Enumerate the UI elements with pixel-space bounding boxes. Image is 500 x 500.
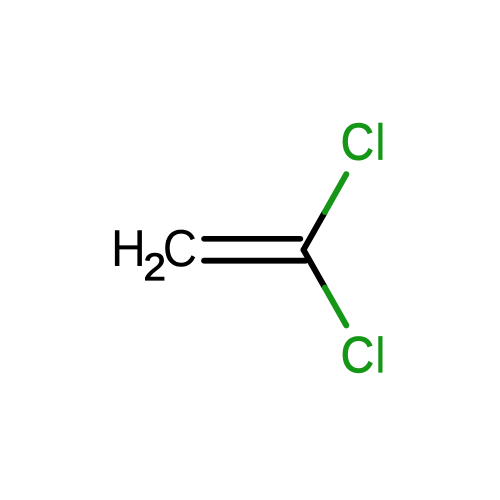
bond C-Cl lower, carbon half (black) bbox=[304, 250, 325, 288]
double bond C=C lower line bbox=[204, 258, 306, 264]
atom label C of H2C bbox=[165, 230, 195, 267]
bond C-Cl upper, chlorine half (green) bbox=[325, 174, 346, 212]
atom label Cl top chlorine, letter C bbox=[343, 123, 372, 160]
bond C-Cl lower, chlorine half (green) bbox=[325, 288, 346, 326]
bond C-Cl upper, carbon half (black) bbox=[304, 212, 325, 250]
atom label Cl bottom chlorine, letter l bbox=[379, 336, 383, 372]
atom label subscript 2 of H2C bbox=[145, 253, 163, 280]
double bond C=C upper line bbox=[204, 236, 300, 242]
atom label Cl top chlorine, letter l bbox=[379, 123, 383, 160]
atom label H of H2C bbox=[115, 230, 142, 266]
atom label Cl bottom chlorine, letter C bbox=[343, 337, 372, 373]
